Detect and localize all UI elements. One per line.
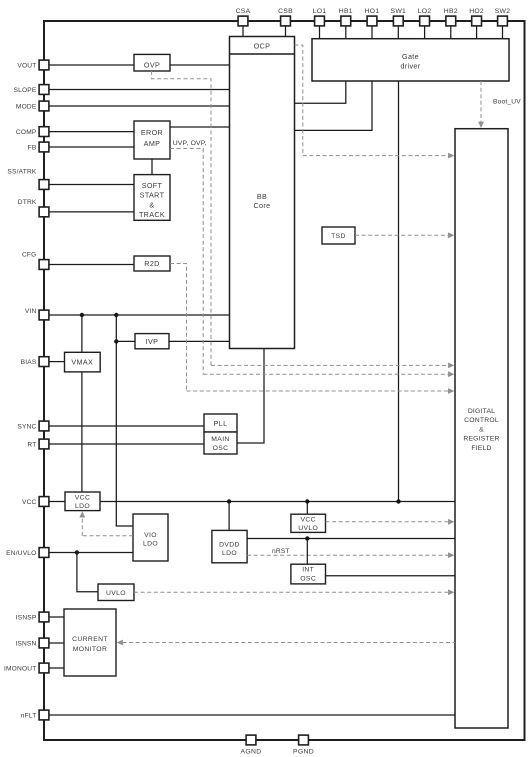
- svg-text:REGISTER: REGISTER: [463, 436, 499, 443]
- wire SYNC to PLL: [49, 425, 204, 427]
- wire junction to DVDD LDO: [228, 502, 230, 531]
- svg-text:Boot_UV: Boot_UV: [493, 99, 521, 106]
- pin SYNC: [39, 421, 49, 431]
- pin HB1: [341, 16, 351, 26]
- wire LO1 to gate driver: [319, 26, 321, 39]
- wire DTRK to soft start: [49, 211, 134, 213]
- svg-text:RT: RT: [27, 441, 36, 448]
- node VIN-VMAX junction: [80, 313, 84, 317]
- svg-text:BIAS: BIAS: [21, 359, 37, 366]
- pin FB: [39, 142, 49, 152]
- pin LO1: [315, 16, 325, 26]
- wire ISNSP to current monitor: [49, 616, 64, 618]
- node IVP input junction: [114, 339, 118, 343]
- svg-text:EN/UVLO: EN/UVLO: [6, 550, 36, 557]
- svg-text:VIO: VIO: [144, 532, 157, 539]
- svg-text:SOFT: SOFT: [142, 181, 163, 190]
- pin IMONOUT: [39, 663, 49, 673]
- wire HB1 to gate driver: [345, 26, 347, 39]
- wire INT OSC to digital control: [326, 575, 456, 577]
- pin SW1: [393, 16, 403, 26]
- wire DVDD LDO output to digital control: [247, 538, 455, 540]
- svg-text:HO1: HO1: [365, 8, 380, 15]
- wire VIN junction to VMAX: [81, 315, 83, 352]
- node EN junction: [75, 550, 79, 554]
- svg-text:PGND: PGND: [293, 749, 314, 756]
- svg-text:AGND: AGND: [240, 749, 261, 756]
- svg-text:HB2: HB2: [444, 8, 458, 15]
- svg-text:OSC: OSC: [213, 445, 229, 452]
- dashed OVP to digital control: [152, 71, 211, 365]
- pin COMP: [39, 127, 49, 137]
- svg-text:VOUT: VOUT: [17, 62, 36, 69]
- wire VIN to BB core: [49, 314, 230, 316]
- pin CSB: [281, 16, 291, 26]
- pin RT: [39, 439, 49, 449]
- pin VIN: [39, 310, 49, 320]
- block MAIN OSC: [204, 432, 237, 454]
- dashed digital control to current monitor: [123, 642, 456, 644]
- node DVDD-INT OSC junction: [305, 536, 309, 540]
- svg-text:driver: driver: [400, 61, 420, 70]
- pin LO2: [420, 16, 430, 26]
- svg-text:&: &: [149, 200, 154, 209]
- wire gate driver to BB core upper: [295, 81, 346, 103]
- block VCC LDO: [65, 492, 100, 511]
- wire HO2 to gate driver: [476, 26, 478, 39]
- block INT OSC: [291, 564, 326, 584]
- svg-text:EROR: EROR: [141, 128, 163, 137]
- svg-text:COMP: COMP: [16, 129, 37, 136]
- wire SW2 to gate driver: [502, 26, 504, 39]
- pin VOUT: [39, 60, 49, 70]
- svg-text:UVP, OVP,: UVP, OVP,: [173, 140, 207, 147]
- svg-text:R2D: R2D: [144, 259, 159, 268]
- node VCC-gate driver junction: [396, 499, 400, 503]
- wire error amp to soft start: [151, 159, 153, 175]
- node VIN-IVP junction: [114, 313, 118, 317]
- svg-text:IMONOUT: IMONOUT: [4, 665, 37, 672]
- svg-text:IVP: IVP: [146, 337, 159, 346]
- svg-text:TRACK: TRACK: [139, 210, 165, 219]
- svg-text:ISNSN: ISNSN: [15, 640, 36, 647]
- dashed VIO LDO to VCC LDO enable: [82, 535, 133, 537]
- dashed UVP OVP from error amp to digital control: [170, 149, 203, 375]
- block SOFT START and TRACK: [134, 175, 170, 221]
- pin AGND: [246, 735, 256, 745]
- wire error amp output to BB core: [170, 126, 230, 128]
- dashed nRST to digital control: [247, 554, 452, 556]
- wire CSB to OCP: [285, 26, 287, 37]
- svg-text:&: &: [479, 426, 484, 433]
- svg-text:OSC: OSC: [300, 575, 316, 582]
- svg-text:CONTROL: CONTROL: [464, 417, 499, 424]
- block OVP: [134, 54, 170, 71]
- svg-text:INT: INT: [302, 567, 314, 574]
- wire SLOPE to BB core: [49, 89, 230, 91]
- wire VMAX to VCC LDO: [81, 372, 83, 492]
- svg-text:SLOPE: SLOPE: [14, 87, 37, 94]
- wire BIAS to VMAX: [49, 361, 65, 363]
- svg-text:VIN: VIN: [25, 308, 37, 315]
- pin BIAS: [39, 357, 49, 367]
- wire CFG to R2D: [49, 264, 134, 266]
- wire HB2 to gate driver: [450, 26, 452, 39]
- svg-text:UVLO: UVLO: [298, 525, 318, 532]
- wire nFLT to digital control: [49, 714, 455, 716]
- svg-text:CSA: CSA: [236, 8, 251, 15]
- svg-text:LO2: LO2: [418, 8, 432, 15]
- svg-text:MAIN: MAIN: [211, 436, 229, 443]
- block EROR AMP (error amplifier): [134, 121, 170, 159]
- wire CSA to OCP: [242, 26, 244, 37]
- svg-text:SYNC: SYNC: [17, 423, 36, 430]
- pin VCC: [39, 497, 49, 507]
- pin HO2: [472, 16, 482, 26]
- svg-text:HO2: HO2: [469, 8, 484, 15]
- svg-text:CSB: CSB: [278, 8, 293, 15]
- wire COMP to error amp: [49, 131, 134, 133]
- wire MODE to BB core: [49, 105, 230, 107]
- svg-text:MODE: MODE: [16, 103, 37, 110]
- svg-text:AMP: AMP: [144, 139, 161, 148]
- block IVP: [135, 334, 169, 349]
- block UVLO: [98, 584, 134, 601]
- node VCC-DVDD junction: [227, 499, 231, 503]
- wire VIN branch down to VIO LDO: [116, 315, 133, 526]
- pin SW2: [498, 16, 508, 26]
- svg-text:SW2: SW2: [495, 8, 510, 15]
- block OCP: [230, 53, 295, 55]
- svg-text:nFLT: nFLT: [21, 712, 37, 719]
- pin CSA: [238, 16, 248, 26]
- dashed UVLO to digital control: [134, 591, 452, 593]
- wire FB to error amp: [49, 146, 134, 148]
- wire junction to INT OSC: [306, 539, 308, 565]
- pin DTRK: [39, 207, 49, 217]
- svg-text:LDO: LDO: [75, 503, 90, 510]
- svg-text:LDO: LDO: [143, 541, 158, 548]
- svg-text:DIGITAL: DIGITAL: [468, 408, 495, 415]
- svg-text:DVDD: DVDD: [219, 541, 240, 548]
- svg-text:START: START: [140, 191, 165, 200]
- dashed Boot_UV to digital control: [480, 81, 482, 125]
- svg-text:OCP: OCP: [254, 41, 271, 50]
- pin ISNSP: [39, 612, 49, 622]
- svg-text:UVLO: UVLO: [106, 590, 126, 597]
- wire LO2 to gate driver: [424, 26, 426, 39]
- svg-text:HB1: HB1: [339, 8, 353, 15]
- wire EN/UVLO to VIO LDO: [49, 552, 133, 554]
- pin nFLT: [39, 710, 49, 720]
- pin CFG: [39, 260, 49, 270]
- wire VOUT to OVP: [49, 64, 134, 66]
- wire EN junction to UVLO: [77, 553, 98, 592]
- wire gate driver to BB core lower: [295, 81, 373, 130]
- svg-text:ISNSP: ISNSP: [16, 614, 37, 621]
- wire junction to VCC UVLO: [306, 502, 308, 515]
- block VMAX: [65, 352, 101, 372]
- pin EN/UVLO: [39, 548, 49, 558]
- block VIO LDO: [133, 514, 168, 561]
- pin PGND: [299, 735, 309, 745]
- wire IMONOUT to current monitor: [49, 667, 64, 669]
- pin MODE: [39, 101, 49, 111]
- block Digital Control and Register Field: [455, 129, 508, 728]
- dashed OCP to digital control: [295, 45, 303, 156]
- wire gate driver to VCC rail: [398, 81, 400, 502]
- pin ISNSN: [39, 638, 49, 648]
- pin SLOPE: [39, 85, 49, 95]
- svg-text:LDO: LDO: [222, 550, 237, 557]
- svg-text:nRST: nRST: [272, 548, 290, 555]
- svg-text:CFG: CFG: [22, 252, 37, 259]
- pin HO1: [367, 16, 377, 26]
- svg-text:VCC: VCC: [75, 494, 90, 501]
- wire RT to MAIN OSC: [49, 443, 204, 445]
- svg-text:Core: Core: [254, 201, 271, 210]
- svg-text:VMAX: VMAX: [71, 358, 93, 367]
- wire VCC rail to digital control: [49, 501, 455, 503]
- block CURRENT MONITOR: [64, 609, 116, 676]
- svg-text:VCC: VCC: [22, 499, 37, 506]
- dashed VCC UVLO to digital control: [326, 521, 453, 523]
- svg-text:CURRENT: CURRENT: [72, 636, 108, 643]
- dashed TSD to digital control: [355, 234, 452, 236]
- wire IVP to BB core: [169, 340, 230, 342]
- dashed R2D to digital control: [170, 264, 187, 392]
- pin SS/ATRK: [39, 180, 49, 190]
- svg-text:BB: BB: [257, 192, 267, 201]
- wire SS/ATRK to soft start: [49, 184, 134, 186]
- pin HB2: [446, 16, 456, 26]
- block PLL: [204, 414, 237, 432]
- block TSD: [322, 227, 355, 244]
- block Gate driver: [312, 39, 509, 81]
- svg-text:LO1: LO1: [313, 8, 327, 15]
- block VCC UVLO: [291, 514, 326, 532]
- node VCC-UVLO junction: [305, 499, 309, 503]
- svg-text:PLL: PLL: [214, 419, 228, 428]
- svg-text:TSD: TSD: [331, 233, 346, 240]
- wire junction to IVP: [116, 340, 135, 342]
- svg-text:OVP: OVP: [144, 61, 160, 70]
- svg-text:Gate: Gate: [402, 52, 419, 61]
- svg-text:DTRK: DTRK: [18, 199, 37, 206]
- wire ISNSN to current monitor: [49, 642, 64, 644]
- wire HO1 to gate driver: [371, 26, 373, 39]
- svg-text:FIELD: FIELD: [471, 445, 491, 452]
- wire OVP to BB core: [170, 64, 230, 66]
- wire SW1 to gate driver: [397, 26, 399, 39]
- wire BB core to MAIN OSC: [237, 349, 264, 444]
- block R2D: [134, 256, 170, 271]
- block BB Core: [230, 37, 295, 349]
- svg-text:SW1: SW1: [391, 8, 406, 15]
- svg-text:MONITOR: MONITOR: [73, 646, 107, 653]
- block DVDD LDO: [212, 530, 247, 562]
- svg-text:SS/ATRK: SS/ATRK: [7, 169, 37, 176]
- svg-text:FB: FB: [28, 144, 37, 151]
- svg-text:VCC: VCC: [300, 517, 315, 524]
